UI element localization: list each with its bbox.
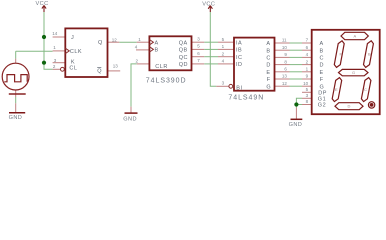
U4 segment A (top) [341, 32, 368, 39]
svg-text:G: G [352, 70, 355, 75]
wire clock net (source G1 top pin to U1 CLK) [16, 51, 53, 58]
supply symbol VCC2 [202, 1, 215, 12]
U2 B clock wedge [149, 47, 153, 52]
junction on VCC net at U1 K pin row [42, 61, 46, 65]
7-segment display U4 body [312, 30, 380, 114]
U4 segment B (top-right) [364, 41, 374, 68]
wire U2 QB (pin 5) to U3 IB (pin 1) [204, 48, 218, 50]
U1 pin name Qbar [97, 68, 102, 75]
svg-text:Q: Q [97, 68, 102, 74]
wire U3 F (pin 13) to display F (pin 9) [290, 78, 303, 80]
svg-text:G1: G1 [318, 96, 326, 102]
wire U3 A (pin 11) to display A (pin 7) [290, 42, 303, 44]
svg-text:F: F [320, 77, 324, 83]
ground GND3 [289, 119, 303, 128]
svg-text:IC: IC [236, 55, 243, 61]
junction on VCC net at U1 J pin row [42, 35, 46, 39]
BCD decoder U3 body [234, 38, 275, 91]
svg-text:QC: QC [179, 55, 188, 61]
wire U2 QC (pin 6) to U3 IC (pin 2) [204, 56, 218, 58]
pin stubs display left (A..G, DP 5, G1 3, G2 8) [302, 43, 312, 105]
svg-text:10: 10 [303, 81, 309, 86]
wire U3 C (pin 9) to display C (pin 4) [290, 56, 303, 58]
svg-text:IB: IB [236, 48, 242, 54]
wire source G1 bottom pin to GND1 [15, 97, 17, 103]
U3 BI inversion bubble [229, 84, 233, 88]
svg-text:BI: BI [236, 85, 242, 91]
supply symbol VCC1 [36, 1, 49, 12]
svg-text:13: 13 [113, 64, 119, 69]
svg-text:A: A [155, 40, 159, 46]
U4 segment G (middle) [339, 69, 369, 75]
wire VCC net (VCC2 down to U3 BI pin 3) [210, 12, 216, 86]
svg-text:B: B [320, 48, 324, 54]
svg-text:C: C [266, 56, 270, 62]
U4 segment E (bottom-left) [332, 78, 342, 102]
svg-text:E: E [320, 70, 324, 76]
wire U2 QD (pin 7) to U3 ID (pin 4) [204, 63, 218, 65]
svg-text:A: A [354, 34, 357, 39]
svg-text:QD: QD [179, 62, 188, 68]
svg-text:G: G [320, 84, 325, 90]
U4 segment C (bottom-right) [361, 78, 371, 102]
svg-text:CL: CL [69, 65, 77, 71]
wire U2 QA (pin 3) to U3 IA (pin 5) [204, 41, 218, 43]
svg-text:D: D [348, 104, 351, 109]
svg-text:VCC: VCC [202, 1, 215, 7]
wire GND net (display G1/G2 pins to GND3) [296, 98, 302, 107]
svg-text:GND: GND [123, 117, 137, 123]
U4 segment D (bottom) [335, 103, 363, 110]
svg-text:CLK: CLK [70, 49, 82, 55]
svg-text:GND: GND [289, 122, 303, 128]
svg-text:C: C [364, 87, 367, 92]
svg-text:G2: G2 [318, 103, 326, 109]
wire U3 D (pin 8) to display D (pin 2) [290, 64, 303, 66]
U4 decimal point DP [368, 102, 374, 108]
pin stubs U2 left (A 1, B 4, CLR 2) [136, 42, 149, 64]
svg-text:14: 14 [52, 31, 58, 36]
svg-text:C: C [320, 56, 324, 62]
wire U3 B (pin 10) to display B (pin 6) [290, 49, 303, 51]
U2 A clock wedge [149, 40, 153, 45]
decade counter U2 body [149, 36, 191, 70]
U1 CLK clock wedge [65, 48, 69, 53]
U4 segment F (top-left) [334, 41, 344, 68]
ground GND2 [123, 113, 137, 122]
wire VCC net (VCC1 down to U1 J/K/CL pins) [44, 12, 53, 69]
pin stubs source G1 and ground pins [16, 59, 297, 119]
wire U2 CLR (pin 2) down to GND2 [131, 64, 137, 107]
U1 CL inversion bubble [61, 67, 65, 71]
svg-text:VCC: VCC [36, 1, 49, 7]
svg-text:D: D [266, 63, 270, 69]
svg-text:A: A [320, 41, 324, 47]
svg-text:74LS49N: 74LS49N [228, 95, 264, 102]
svg-text:QA: QA [179, 40, 188, 46]
svg-text:IA: IA [236, 40, 242, 46]
wire U3 E (pin 6) to display E (pin 1) [290, 71, 303, 73]
svg-text:12: 12 [112, 37, 118, 42]
svg-text:F: F [267, 77, 271, 83]
svg-text:10: 10 [282, 45, 288, 50]
svg-text:A: A [266, 41, 270, 47]
signal source G1 (square-wave generator) [2, 63, 29, 94]
pin stubs U2 right (QA 3, QB 5, QC 6, QD 7) [192, 42, 205, 64]
svg-text:B: B [368, 52, 371, 57]
wire U3 G (pin 12) to display G (pin 10) [290, 85, 303, 87]
pin stubs U1 right (Q 12, Qbar 13) [108, 42, 121, 71]
pin stubs U1 left (J 14, CLK 1, K 3, CL 2) [53, 37, 66, 69]
svg-text:ID: ID [236, 62, 243, 68]
pin stubs U3 right (A 11, B 10, C 9, D 8, E 6, F 13, G 12) [275, 43, 290, 86]
svg-text:11: 11 [282, 38, 287, 43]
svg-text:E: E [266, 70, 270, 76]
svg-text:13: 13 [282, 74, 288, 79]
svg-text:E: E [335, 87, 338, 92]
svg-text:D: D [320, 63, 324, 69]
svg-text:G: G [266, 84, 271, 90]
JK flip-flop U1 body [65, 28, 107, 77]
svg-text:QB: QB [179, 48, 188, 54]
wire U1 Q (pin 12) to U2 A (pin 1) [119, 41, 136, 43]
svg-text:12: 12 [282, 81, 288, 86]
svg-text:74LS390D: 74LS390D [146, 77, 187, 84]
svg-text:B: B [266, 48, 270, 54]
svg-text:Q: Q [98, 40, 103, 46]
ground GND1 [9, 113, 26, 121]
svg-text:CLR: CLR [155, 64, 168, 70]
svg-text:B: B [155, 48, 159, 54]
junction on GND net at display G2 pin row [294, 102, 298, 106]
svg-text:GND: GND [9, 115, 23, 121]
svg-text:J: J [71, 35, 74, 41]
pin stubs U3 left (IA 5, IB 1, IC 2, ID 4, BI 3) [216, 42, 234, 86]
